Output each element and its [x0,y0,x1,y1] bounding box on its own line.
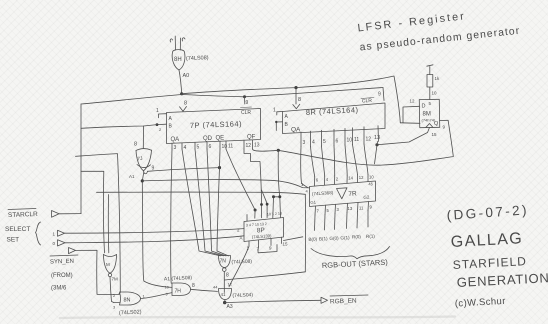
svg-text:12: 12 [366,137,372,143]
svg-text:A: A [285,114,289,120]
svg-text:8: 8 [298,97,301,103]
svg-text:7H: 7H [175,289,182,295]
pin stubs 8P bottom [249,238,282,247]
svg-text:6: 6 [336,139,339,145]
svg-text:2: 2 [237,228,240,233]
svg-text:QF: QF [247,135,256,141]
wire SYN-EN row [76,250,114,294]
svg-text:A: A [169,116,173,122]
svg-text:A0: A0 [183,73,190,79]
svg-text:1: 1 [53,232,56,237]
wire second 7M input [107,195,109,253]
svg-text:STARFIELD: STARFIELD [452,254,527,272]
wire loop under 8P pins [258,245,277,253]
svg-text:5: 5 [429,101,432,106]
and-gate 41 [219,289,232,300]
wire STARCLR vertical [80,104,82,214]
svg-text:2: 2 [159,127,162,132]
svg-text:G2: G2 [363,195,370,200]
wire D input U [400,106,420,123]
wire bus 7P pin5 down [195,149,224,256]
node A junction [180,92,183,95]
svg-text:(74LS04): (74LS04) [232,292,253,299]
wire H9 to D1 [148,168,220,172]
node pin9 7P junction [243,95,246,98]
brace RGB-OUT [311,247,390,259]
svg-text:SELECT: SELECT [5,226,30,233]
svg-text:8: 8 [192,283,195,289]
svg-text:41: 41 [221,292,227,297]
wire bus 7P pin4 down [182,149,221,256]
svg-text:7J: 7J [137,156,144,163]
svg-text:11: 11 [354,137,359,143]
wire branch to 7M input [81,171,105,253]
IC 7R 74LS368 [310,181,376,207]
buffer RGB-EN [321,297,328,303]
node J3 junction [277,149,280,152]
and-gate 7N [219,256,231,268]
svg-text:4: 4 [184,145,187,151]
wire J3 down to 8P [278,150,280,197]
wire bus 7P pin6 down [207,149,226,256]
svg-text:3: 3 [113,305,116,310]
svg-text:(74LS02): (74LS02) [119,309,142,316]
pin clk arrow 7P [180,107,187,112]
svg-text:STARCLR: STARCLR [8,211,38,219]
svg-text:10: 10 [347,138,353,144]
svg-text:45: 45 [368,181,374,186]
pin clk arrow 8R [293,104,300,109]
svg-text:B(0): B(0) [308,237,317,242]
svg-text:(DG-07-2): (DG-07-2) [446,202,529,223]
flip-flop 8M [419,99,439,127]
svg-text:2: 2 [336,177,339,182]
pin stubs 7R top [315,174,369,186]
and-gate 7H [172,283,191,296]
wire bus 8R pins to 7R [301,147,308,188]
svg-text:A: A [240,236,243,241]
wire V305 [304,194,306,271]
svg-text:8: 8 [184,101,187,107]
svg-text:13: 13 [348,206,353,211]
svg-text:GENERATION: GENERATION [456,270,548,290]
svg-text:8H: 8H [174,57,182,63]
svg-text:14: 14 [348,176,353,181]
svg-text:11: 11 [228,144,233,150]
svg-text:(c)W.Schur: (c)W.Schur [455,296,506,310]
pin clk wedge 8M [426,124,433,128]
svg-text:1: 1 [273,108,276,114]
buffer STARCLR [52,211,60,218]
svg-text:10 1 2 13: 10 1 2 13 [267,211,282,216]
svg-text:A1: A1 [129,174,135,179]
pin B stub 7P [157,123,167,125]
svg-text:(74LS08): (74LS08) [231,259,252,266]
buffer SELECT [58,230,65,236]
wire XOR output curl [144,171,148,174]
nor-gate 7M [104,255,117,257]
svg-text:B: B [169,124,173,130]
pin B stub 8R [276,122,282,131]
svg-text:9: 9 [269,246,272,251]
node pin8 8R junction [294,86,297,89]
svg-text:13: 13 [374,135,380,141]
svg-text:6: 6 [209,144,212,150]
svg-text:G1: G1 [310,200,317,205]
node J4 junction [375,143,378,146]
svg-text:B(1): B(1) [319,236,328,241]
wire SET row [65,236,244,243]
svg-text:G(1): G(1) [340,235,350,240]
wire pin13 7P to J3 [253,149,279,151]
svg-text:10: 10 [432,91,438,96]
wire 7N output down [223,271,225,292]
svg-text:QA: QA [291,127,301,134]
svg-text:RGB-OUT (STARS): RGB-OUT (STARS) [322,258,389,270]
svg-text:4: 4 [326,177,329,182]
resistor R 1k [427,75,433,88]
svg-text:3: 3 [337,207,340,212]
wire H1 STARCLR net [81,88,383,105]
credits text block [446,202,548,309]
svg-text:(74LS08): (74LS08) [186,55,209,62]
wire RGB-EN row [225,300,321,302]
wire Wa to 8N vertical [76,154,121,294]
svg-text:44: 44 [213,285,218,290]
wire pin12 zigzag [244,149,262,218]
svg-text:SYN_EN: SYN_EN [50,259,74,266]
wire SELECT row [65,229,245,234]
wire Q feedback sweep [278,121,453,165]
svg-text:12: 12 [228,282,233,287]
wire H3 clock net [182,76,401,123]
svg-text:9: 9 [166,293,168,297]
svg-text:7: 7 [317,209,320,214]
svg-text:A3: A3 [227,304,233,310]
svg-text:RGB_EN: RGB_EN [330,298,357,306]
pin stub 8P top-left [246,215,248,222]
wire 8N output to 7H [141,293,173,299]
svg-text:QD: QD [203,136,213,142]
svg-text:R(0): R(0) [352,234,362,239]
svg-text:3: 3 [303,140,306,146]
svg-text:3: 3 [174,145,177,151]
wire 7R outputs down [315,211,369,231]
wire bus 7P pin3 down [171,149,172,283]
svg-text:8: 8 [134,142,137,148]
svg-text:CLR: CLR [362,98,373,105]
svg-text:7P (74LS164): 7P (74LS164) [190,119,242,130]
svg-text:B: B [285,122,289,128]
brace select/set [36,222,41,245]
svg-text:G(0): G(0) [329,236,339,241]
svg-text:QA: QA [171,137,180,143]
svg-text:6: 6 [316,178,319,183]
svg-text:LFSR - Register: LFSR - Register [357,10,467,34]
wire 7N branch to V305 [224,272,305,280]
pin stubs 8R bottom [301,126,379,147]
output labels RGB [308,234,375,242]
svg-text:7M: 7M [112,277,119,282]
svg-text:1k: 1k [435,76,441,81]
wire branch to B pin / XOR [81,125,157,129]
wire 8P to gate41 [229,246,249,287]
svg-text:R(1): R(1) [366,234,376,239]
svg-text:SET: SET [7,237,20,244]
svg-text:13: 13 [254,143,260,149]
svg-text:0: 0 [53,241,56,246]
svg-text:9: 9 [443,125,446,130]
title text [357,10,521,53]
wire CLR stub 8R [383,88,384,101]
svg-text:(74LS368): (74LS368) [312,190,334,197]
pin stubs 7P bottom [172,140,253,149]
IC 8P [244,218,284,242]
svg-text:1: 1 [156,108,159,114]
svg-text:10: 10 [369,175,374,180]
svg-text:9: 9 [370,205,373,210]
inverter triangle 7R [337,188,348,199]
buffer SET [58,240,66,246]
wire V3 xor down [142,172,172,287]
svg-text:12: 12 [359,175,364,180]
wire bus 7P pin11 to 8P [226,149,255,210]
svg-text:8N: 8N [124,298,131,304]
svg-text:5: 5 [197,145,200,151]
svg-text:9: 9 [246,100,249,106]
svg-text:8R (74LS164): 8R (74LS164) [306,105,359,117]
svg-text:8: 8 [226,273,229,279]
svg-text:QE: QE [216,136,225,142]
svg-text:11: 11 [359,206,364,211]
IC 7P 74LS164 [167,109,261,144]
svg-text:M: M [106,262,110,267]
svg-text:A1 (74LS08): A1 (74LS08) [164,275,193,282]
wire clock to 8M [377,128,430,145]
svg-text:4: 4 [306,189,309,194]
buffer SYN-EN [69,248,76,254]
svg-text:5: 5 [323,139,326,145]
svg-text:D: D [422,104,426,110]
svg-text:5: 5 [327,208,330,213]
wire 8P pin15 diag [284,237,303,241]
svg-text:12: 12 [246,143,252,149]
svg-text:10: 10 [165,286,169,290]
and-gate 8H [172,50,185,70]
wire H11 [97,192,306,194]
pin A step 7P [159,114,167,118]
svg-text:4: 4 [312,140,315,146]
svg-text:CLR: CLR [241,110,251,116]
svg-text:15: 15 [432,132,438,137]
wire Q output [440,119,449,121]
wire 7H output [191,289,218,291]
paper smudge bottom [60,317,455,319]
wire H10 [142,180,309,188]
svg-text:(3M/6: (3M/6 [51,286,67,292]
xor-gate 7J [136,149,152,151]
svg-text:15: 15 [283,242,289,247]
nor-gate 8N [120,292,141,305]
svg-text:(FROM): (FROM) [51,273,73,279]
svg-text:7N: 7N [220,259,227,265]
wire 7M output [110,277,114,303]
svg-text:Q: Q [434,121,439,127]
svg-text:GALLAG: GALLAG [450,230,523,251]
wire bus 7P pin10 down [217,149,229,256]
svg-text:12: 12 [410,99,416,104]
pin A step 8R [277,112,283,116]
svg-text:2: 2 [113,293,116,298]
svg-text:7R: 7R [348,190,357,198]
svg-text:9: 9 [378,92,381,98]
pin stubs 7R bottom [315,202,369,216]
wire 8H output [179,70,182,94]
IC 8R 74LS164 [283,103,386,134]
